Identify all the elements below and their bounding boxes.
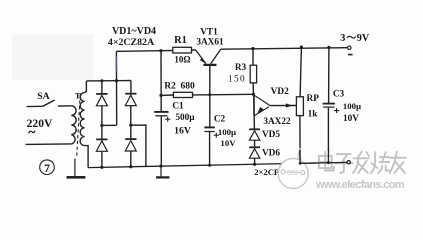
wire: right AC node over and down — [131, 125, 146, 166]
potentiometer RP — [296, 97, 303, 116]
svg-text:3: 3 — [340, 33, 345, 44]
node: bottom rail VD2 col — [129, 165, 132, 168]
wire: main top rail right section — [221, 48, 348, 50]
wire: R3 bottom — [252, 83, 254, 94]
wire: left column bottom — [101, 151, 103, 167]
svg-text:16V: 16V — [174, 125, 191, 136]
node: riser crosses bridge rail — [115, 79, 118, 82]
wire: left AC node to riser — [102, 124, 117, 126]
svg-text:7: 7 — [44, 163, 50, 175]
node: C3 top tap — [327, 46, 330, 49]
node: right AC node — [129, 124, 132, 127]
svg-text:100µ: 100µ — [218, 127, 236, 137]
wire: VT1 base down — [209, 66, 211, 127]
svg-text:R3: R3 — [235, 63, 247, 73]
diode VD5 — [249, 128, 260, 130]
wire: RP riser top — [300, 47, 301, 97]
transistor VT1 — [196, 50, 206, 64]
wire: VT2 emitter down to VD5 — [253, 116, 255, 129]
node: rail / C1-R2 branch — [159, 49, 162, 52]
diode VD6 — [249, 146, 260, 148]
diode VD1 (top-left) — [96, 93, 107, 95]
blue scan mark on riser — [115, 56, 117, 71]
wire: R3 top — [252, 49, 254, 66]
wire: R2 right to VT2 node — [193, 93, 254, 96]
watermark logo circle — [278, 148, 308, 189]
wire: bottom rail — [88, 162, 347, 167]
node: R3 tap — [251, 47, 254, 50]
svg-text:RP: RP — [306, 94, 319, 104]
svg-text:VT1: VT1 — [200, 28, 218, 38]
svg-text:VD1~VD4: VD1~VD4 — [112, 26, 156, 37]
figure number circle 7 — [40, 160, 55, 175]
wire: VD6 to bottom rail — [254, 158, 256, 164]
wire: C1 riser — [160, 51, 162, 111]
node: bottom rail C3 — [327, 161, 330, 164]
ground on bottom rail — [160, 166, 162, 176]
svg-text:www.elecfans.com: www.elecfans.com — [315, 179, 405, 191]
wire: bridge top rail — [86, 80, 130, 82]
diode VD4 (bottom-right) — [125, 138, 136, 140]
wire: secondary top lead — [85, 81, 87, 93]
svg-text:C1: C1 — [172, 101, 184, 111]
wire: C3 riser — [328, 47, 330, 103]
wire: center riser to main top rail — [115, 51, 117, 125]
wire: left column middle — [101, 106, 103, 140]
svg-text:3AX22: 3AX22 — [263, 117, 291, 127]
svg-text:VD5: VD5 — [262, 130, 280, 140]
wire: 220V top input stub — [27, 105, 43, 107]
svg-text:500µ: 500µ — [175, 112, 195, 122]
node: bridge rail left column — [100, 79, 103, 82]
wire: right column from rail corner — [130, 81, 132, 94]
svg-text:1k: 1k — [308, 110, 319, 120]
node: bottom rail C1/ground — [159, 165, 162, 168]
node: R3 / VT2 collector — [252, 93, 255, 96]
minus sign under terminal — [348, 54, 353, 56]
diode VD3 (bottom-left) — [96, 138, 107, 140]
svg-text:R1: R1 — [174, 35, 187, 46]
wire: right column middle — [130, 106, 132, 139]
switch SA blade — [43, 100, 55, 106]
node: left AC node — [100, 124, 103, 127]
resistor R2 — [173, 92, 192, 97]
wire: VD5 to VD6 — [254, 140, 256, 147]
svg-text:9V: 9V — [357, 33, 370, 44]
svg-text:3AX61: 3AX61 — [196, 38, 224, 48]
plus sign C1 — [165, 117, 170, 122]
ground under transformer — [74, 159, 76, 177]
transformer core dashed line — [77, 95, 81, 159]
node: bottom rail VD1 col — [100, 166, 103, 169]
terminal: output bottom (over watermark) — [347, 161, 350, 164]
wire: RP bottom — [299, 116, 301, 164]
wire: 220V bottom input — [26, 143, 72, 146]
capacitor C3 — [323, 103, 335, 105]
svg-text:4×2CZ82A: 4×2CZ82A — [108, 37, 155, 48]
svg-text:C2: C2 — [214, 114, 226, 124]
resistor R3 — [250, 65, 256, 83]
label tilde — [29, 131, 36, 134]
wire: C1 riser to R2 — [161, 94, 173, 96]
svg-text:220V: 220V — [27, 117, 53, 130]
transformer T primary winding — [71, 106, 76, 144]
node: bottom rail C2 — [208, 164, 211, 167]
node: RP top tap — [300, 46, 303, 49]
capacitor C1 — [154, 111, 168, 113]
wire: switch to primary top — [58, 105, 71, 107]
wire: VT2 base to RP wiper w/ arrow — [270, 105, 296, 107]
node: bottom rail VD6 — [253, 163, 256, 166]
plus sign C2 — [214, 133, 219, 138]
plus sign C3 — [334, 108, 339, 113]
node: C1 riser / R2 — [159, 94, 162, 97]
svg-text:C3: C3 — [333, 89, 345, 99]
svg-text:10V: 10V — [220, 138, 236, 148]
transistor VT2 (3AX22) — [253, 95, 255, 117]
svg-text:R2 680: R2 680 — [164, 81, 195, 91]
diode VD2 (top-right of bridge) — [125, 93, 136, 95]
svg-text:T: T — [75, 90, 81, 100]
terminal: output bottom — [347, 161, 350, 164]
svg-text:VD6: VD6 — [262, 148, 280, 158]
wire: right column bottom — [130, 151, 132, 167]
resistor R1 — [173, 47, 192, 53]
wire: secondary bottom lead — [85, 146, 89, 168]
capacitor C2 — [204, 126, 214, 128]
wire: left column stub from bridge rail — [101, 81, 103, 94]
terminal: output top — [348, 46, 351, 49]
svg-text:150: 150 — [228, 73, 246, 83]
svg-text:VD2: VD2 — [271, 87, 289, 97]
svg-text:682: 682 — [287, 170, 299, 177]
wire: rail to R1 — [161, 50, 173, 52]
wire: R1 to emitter — [192, 49, 196, 51]
svg-text:100µ: 100µ — [343, 101, 361, 111]
svg-text:10Ω: 10Ω — [174, 54, 190, 64]
node: base line crossing — [208, 93, 211, 96]
svg-text:10V: 10V — [343, 114, 359, 124]
wire: bottom rail redrawn over watermark — [299, 149, 351, 165]
faint scan shading top-left — [12, 34, 93, 80]
svg-text:SA: SA — [37, 91, 49, 102]
transformer T secondary winding — [80, 93, 85, 146]
node: bottom rail RP — [299, 162, 302, 165]
wire: main top rail left section — [116, 50, 161, 53]
